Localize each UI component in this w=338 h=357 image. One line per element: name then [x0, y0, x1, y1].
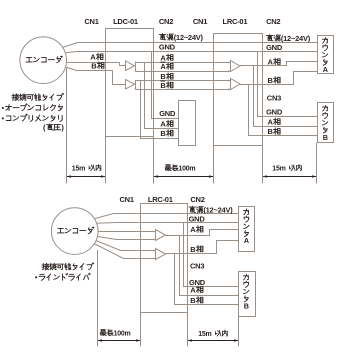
B-bar out row: [136, 89, 231, 91]
svg-text:15m: 15m: [272, 166, 285, 173]
svg-text:15m: 15m: [198, 331, 211, 338]
counter A box (top): [318, 36, 334, 74]
unlabeled local counter box: [179, 101, 196, 146]
svg-text:CN3: CN3: [267, 94, 281, 103]
line receiver U6 (B): [156, 249, 166, 260]
line receiver U5 (A): [156, 230, 166, 241]
svg-text:GND: GND: [159, 109, 176, 118]
counter A box (bottom): [239, 207, 255, 252]
A-phase jog into driver 1: [120, 63, 126, 66]
receiver A output to counter A (bottom): [166, 230, 239, 236]
CN3 GND tap: [258, 52, 318, 117]
svg-text:(12~24V): (12~24V): [203, 206, 233, 215]
CN3 B tap (bottom): [175, 254, 239, 305]
svg-text:(12~24V): (12~24V): [281, 34, 311, 43]
svg-text:B: B: [268, 76, 274, 85]
svg-text:GND: GND: [159, 42, 176, 51]
svg-text:100m: 100m: [114, 330, 131, 337]
B-bar wire: [94, 244, 124, 259]
LDC GND tap to local box: [152, 52, 179, 119]
B-phase wire encoder to LDC CN1: [66, 67, 77, 71]
svg-text:CN2: CN2: [266, 17, 280, 26]
connectable-type note (top): [12, 93, 64, 100]
driver 2 output bar: [135, 80, 137, 90]
svg-text:B: B: [268, 127, 274, 136]
GND wire (bottom): [97, 222, 117, 225]
svg-text:A: A: [90, 53, 96, 62]
svg-text:B: B: [190, 296, 196, 305]
svg-text:A: A: [268, 117, 274, 126]
svg-text:GND: GND: [189, 214, 206, 223]
line driver U1 (A): [126, 61, 135, 71]
receiver A output to counter A: [240, 62, 318, 66]
line driver U2 (B): [126, 80, 135, 90]
svg-text:B: B: [323, 133, 328, 142]
svg-text:CN2: CN2: [190, 195, 204, 204]
svg-text:GND: GND: [266, 43, 283, 52]
A out row: [136, 62, 231, 64]
svg-text:(12~24V): (12~24V): [174, 33, 204, 42]
svg-text:CN3: CN3: [190, 261, 204, 270]
encoder (bottom): [51, 208, 98, 255]
CN3 A tap: [254, 66, 318, 127]
svg-text:15m: 15m: [72, 166, 85, 173]
A-bar wire: [98, 237, 117, 240]
B out row: [136, 80, 231, 82]
svg-text:B: B: [160, 129, 166, 138]
A-bar out row: [136, 71, 231, 73]
svg-text:B: B: [91, 61, 97, 70]
line receiver U4 (B): [231, 79, 241, 90]
svg-text:CN1: CN1: [84, 17, 98, 26]
svg-text:A: A: [160, 62, 166, 71]
LDC A tap to local box: [145, 63, 179, 129]
CN3 B tap: [249, 85, 318, 136]
LRC-01 box (top): [214, 34, 263, 146]
svg-text:B: B: [160, 81, 166, 90]
GND wire (encoder to counter A): [65, 52, 77, 53]
svg-text:A: A: [160, 120, 166, 129]
svg-text:100m: 100m: [179, 166, 196, 173]
LDC-01 box: [106, 29, 154, 137]
counter B box (bottom): [239, 272, 256, 317]
svg-text:B: B: [244, 302, 249, 311]
connectable-type note (bottom): [42, 263, 94, 270]
LDC B tap to local box: [141, 81, 179, 139]
svg-text:CN1: CN1: [120, 195, 134, 204]
svg-text:CN2: CN2: [159, 17, 173, 26]
svg-text:A: A: [190, 285, 196, 294]
CN2 (LRC) labels: [267, 35, 281, 41]
svg-text:A: A: [244, 236, 249, 245]
svg-text:CN1: CN1: [193, 17, 207, 26]
driver 1 output bar: [135, 62, 137, 72]
svg-text:GND: GND: [266, 108, 283, 117]
line receiver U3 (A): [231, 61, 241, 72]
dimension lines (bottom): [97, 250, 99, 347]
svg-text:A: A: [190, 225, 196, 234]
A wire: [98, 231, 156, 233]
svg-text:LRC-01: LRC-01: [148, 195, 173, 204]
encoder (top): [20, 37, 67, 84]
counter B box (top): [318, 103, 334, 143]
svg-text:A: A: [160, 53, 166, 62]
power wire (bottom): [95, 214, 114, 219]
CN3 A tap (bottom): [180, 236, 239, 296]
A-phase wire encoder to LDC CN1: [66, 62, 119, 64]
svg-text:B: B: [190, 245, 196, 254]
receiver B output to counter A: [240, 72, 318, 85]
CN2 labels (bottom): [189, 206, 203, 212]
receiver B output to counter A (bottom): [166, 241, 239, 254]
B-phase jog into driver 2: [113, 71, 126, 85]
svg-text:LRC-01: LRC-01: [223, 17, 248, 26]
svg-text:B: B: [160, 72, 166, 81]
power wire (encoder to counter A): [63, 43, 78, 48]
CN2 (LDC) labels: [159, 34, 173, 40]
LRC-01 box (bottom): [141, 204, 188, 313]
B wire: [96, 241, 121, 251]
svg-text:A: A: [268, 57, 274, 66]
CN3 GND tap (bottom): [184, 223, 239, 287]
svg-text:LDC-01: LDC-01: [113, 17, 138, 26]
dimension lines (top): [66, 68, 68, 184]
svg-text:A: A: [323, 65, 328, 74]
